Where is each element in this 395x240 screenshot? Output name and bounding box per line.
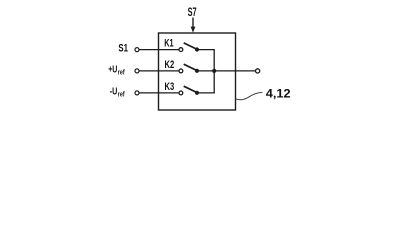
junction dot bus/output [212, 69, 216, 73]
wire S1 to K1 [140, 49, 179, 51]
terminal S1 input [135, 48, 139, 52]
svg-text:S1: S1 [118, 42, 128, 54]
switch K3 blade [184, 86, 197, 92]
svg-text:-U: -U [110, 86, 118, 98]
switch K1 pivot dot [195, 47, 199, 51]
svg-text:K3: K3 [165, 81, 175, 93]
switch K1 blade [184, 43, 197, 49]
switch K3 contact circle [179, 91, 183, 95]
svg-text:4,12: 4,12 [266, 88, 291, 100]
switch K2 contact circle [179, 69, 183, 73]
svg-text:K1: K1 [164, 38, 173, 50]
wire K2 to output [197, 70, 255, 72]
terminal -Uref input [135, 91, 139, 95]
leader line to note 4,12 [236, 92, 263, 99]
terminal +Uref input [135, 69, 139, 73]
wire K1 to bus [197, 50, 214, 71]
wire -Uref to K3 [140, 92, 179, 94]
switch K2 blade [184, 64, 197, 70]
wire +Uref to K2 [140, 70, 179, 72]
switch K3 pivot dot [195, 91, 199, 95]
switch K2 pivot dot [195, 69, 199, 73]
svg-text:S7: S7 [188, 7, 197, 19]
control arrow from S7 into box [191, 18, 196, 33]
svg-text:ref: ref [118, 67, 125, 76]
svg-text:ref: ref [118, 89, 125, 98]
switch K1 contact circle [179, 48, 183, 52]
wire K3 to bus [197, 71, 214, 93]
enclosure box (relay unit) [159, 33, 236, 110]
svg-text:+U: +U [108, 64, 117, 76]
output terminal [256, 69, 260, 73]
svg-text:K2: K2 [165, 59, 175, 71]
